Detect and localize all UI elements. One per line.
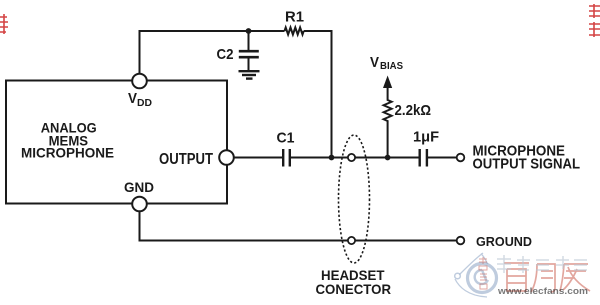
svg-text:GND: GND [124, 180, 154, 195]
wire C1 to node A [291, 157, 348, 159]
terminal mic output [457, 154, 465, 162]
wire top to R1 [249, 30, 285, 32]
svg-text:DD: DD [137, 98, 152, 109]
svg-text:OUTPUT SIGNAL: OUTPUT SIGNAL [473, 157, 581, 173]
headset connector ellipse [339, 135, 370, 263]
junction node B (bias) [385, 155, 391, 161]
svg-text:R1: R1 [285, 9, 304, 26]
watermark emboss chars [497, 255, 587, 273]
wire GND down [140, 212, 348, 241]
svg-text:V: V [370, 54, 379, 71]
mic body box [6, 81, 227, 204]
capacitor 1uF [420, 149, 427, 167]
svg-text:CONECTOR: CONECTOR [316, 282, 392, 297]
resistor 2.2k vertical [384, 88, 392, 158]
svg-text:MICROPHONE: MICROPHONE [21, 146, 114, 161]
pin OUTPUT [219, 150, 234, 165]
svg-text:V: V [128, 90, 137, 107]
watermark big char 1 [504, 263, 529, 291]
headset contact bottom [348, 237, 355, 244]
junction node top (R1/C2) [246, 28, 252, 34]
svg-text:C2: C2 [217, 46, 234, 63]
watermark top right red glyphs [589, 4, 600, 37]
wire node A to node B [355, 157, 418, 159]
wire C2 to ground [248, 59, 250, 71]
svg-text:2.2kΩ: 2.2kΩ [395, 102, 432, 119]
svg-text:OUTPUT: OUTPUT [159, 151, 214, 168]
capacitor C2 [239, 51, 259, 57]
svg-text:C1: C1 [277, 130, 295, 147]
watermark big char 2 [531, 264, 555, 292]
wire C2 stem top [248, 31, 250, 50]
svg-text:BIAS: BIAS [380, 61, 403, 72]
capacitor C1 [283, 149, 290, 167]
svg-text:GROUND: GROUND [476, 234, 532, 249]
wire 1uF to output terminal [428, 157, 457, 159]
wire VDD up [140, 31, 249, 74]
arrow VBIAS [383, 76, 392, 89]
terminal ground [457, 237, 465, 245]
wire R1 to corner [304, 31, 332, 158]
watermark left edge red glyph [0, 14, 8, 34]
headset contact top [348, 154, 355, 161]
wire ground to terminal [355, 240, 457, 242]
watermark red vertical text [479, 257, 487, 289]
watermark big char 3 [560, 264, 590, 291]
junction node A (C1 right) [329, 155, 335, 161]
wire OUTPUT to C1 [234, 157, 283, 159]
resistor R1 [285, 28, 304, 35]
ground symbol [239, 71, 260, 78]
pin GND [132, 197, 147, 212]
svg-text:www.elecfans.com: www.elecfans.com [497, 286, 588, 297]
watermark swirl logo [455, 253, 497, 297]
svg-text:1μF: 1μF [413, 130, 439, 146]
pin VDD [132, 74, 147, 89]
